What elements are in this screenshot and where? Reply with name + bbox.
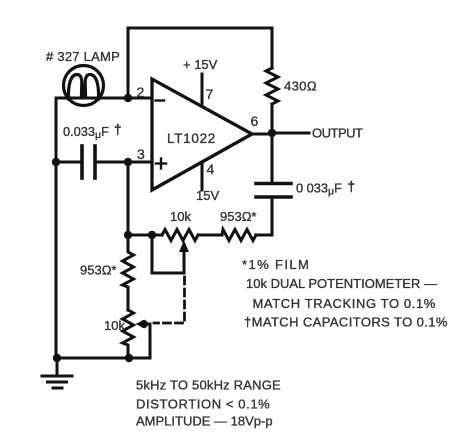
svg-text:7: 7	[206, 86, 214, 102]
ground symbol	[42, 358, 72, 388]
svg-text:AMPLITUDE — 18Vp-p: AMPLITUDE — 18Vp-p	[136, 414, 273, 429]
pin 4 supply stub	[201, 162, 204, 190]
svg-text:2: 2	[137, 84, 145, 100]
svg-text:†: †	[348, 179, 356, 194]
node junction mid-left	[124, 231, 132, 239]
resistor R2 953ohm horizontal	[222, 230, 256, 241]
node junction bottom pot	[125, 354, 133, 362]
label 0.033uF dagger left	[63, 122, 122, 141]
svg-text:6: 6	[251, 113, 259, 129]
svg-text:LT1022: LT1022	[167, 131, 216, 146]
node junction wiper return	[148, 231, 156, 239]
svg-text:DISTORTION < 0.1%: DISTORTION < 0.1%	[136, 396, 270, 411]
svg-text:953Ω*: 953Ω*	[80, 263, 116, 278]
svg-text:953Ω*: 953Ω*	[220, 209, 256, 224]
label 0 033uF dagger right	[296, 179, 355, 198]
svg-text:430Ω: 430Ω	[284, 79, 317, 94]
svg-text:†: †	[114, 122, 122, 137]
svg-text:15V: 15V	[196, 188, 219, 203]
svg-text:10k: 10k	[104, 318, 125, 333]
wire top feedback rail	[128, 28, 272, 98]
potentiometer RP1a 10k horizontal	[162, 230, 198, 241]
wire op-amp output to node	[252, 133, 272, 136]
node output junction	[268, 129, 276, 137]
minus input symbol	[156, 99, 165, 101]
svg-text:10k: 10k	[170, 209, 191, 224]
svg-text:5kHz TO 50kHz RANGE: 5kHz TO 50kHz RANGE	[136, 378, 281, 393]
svg-text:# 327 LAMP: # 327 LAMP	[46, 49, 120, 64]
wire C1 row right (to op-amp pin 3)	[95, 161, 152, 164]
plus input symbol	[156, 159, 166, 169]
wire pin3 node drop	[127, 162, 130, 235]
svg-text:OUTPUT: OUTPUT	[312, 126, 363, 141]
svg-text:10k DUAL POTENTIOMETER —: 10k DUAL POTENTIOMETER —	[246, 276, 437, 291]
svg-text:†MATCH CAPACITORS TO 0.1%: †MATCH CAPACITORS TO 0.1%	[244, 315, 448, 330]
resistor R3 953ohm vertical	[123, 235, 134, 310]
capacitor C2 0.033uF plates	[256, 184, 291, 198]
node junction C1 / pin3 drop	[124, 158, 132, 166]
wire between pot and R2	[198, 234, 222, 237]
wiper arrow RP1a	[152, 235, 189, 273]
wire left outer vertical	[55, 98, 58, 358]
svg-text:3: 3	[137, 146, 145, 162]
potentiometer RP1b 10k vertical	[123, 310, 134, 358]
capacitor C1 0.033uF plates	[82, 146, 95, 178]
wire lamp row (left wire top to op-amp pin 2)	[56, 97, 152, 100]
pin 7 supply stub	[201, 74, 204, 106]
wire output node down to C2	[271, 133, 274, 183]
lamp DS1 #327	[64, 66, 104, 106]
wire pot to left junction	[128, 234, 162, 237]
op-amp U1 LT1022 triangle	[152, 79, 252, 190]
resistor R1 430ohm	[266, 68, 278, 104]
wiper arrow RP1b	[136, 320, 151, 359]
svg-text:+ 15V: + 15V	[183, 57, 218, 72]
wire output stub	[272, 132, 309, 135]
wire R1 to output node	[271, 104, 274, 133]
svg-text:4: 4	[207, 161, 215, 177]
node junction bottom-left	[53, 354, 61, 362]
wire bottom row	[56, 357, 150, 360]
svg-text:0.033μF: 0.033μF	[63, 124, 109, 141]
dashed gang link	[154, 277, 185, 323]
svg-text:*1% FILM: *1% FILM	[242, 257, 310, 272]
node junction lamp/feedback	[124, 94, 132, 102]
svg-text:0 033μF: 0 033μF	[296, 181, 342, 198]
node junction left wire / C1	[52, 158, 60, 166]
wire C1 row left	[56, 161, 82, 164]
wire C2 down and corner to mid row	[256, 197, 272, 235]
svg-text:MATCH TRACKING TO 0.1%: MATCH TRACKING TO 0.1%	[253, 296, 436, 311]
